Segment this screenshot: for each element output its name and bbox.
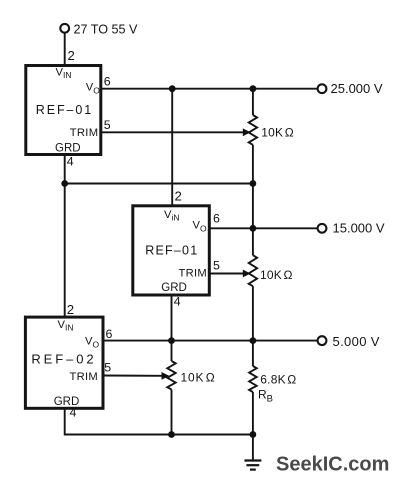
svg-text:GRD: GRD: [161, 282, 187, 294]
svg-text:2: 2: [175, 189, 182, 204]
svg-text:GRD: GRD: [55, 143, 81, 155]
svg-text:25.000 V: 25.000 V: [331, 81, 383, 96]
svg-text:5: 5: [104, 118, 111, 132]
svg-text:GRD: GRD: [54, 396, 80, 408]
svg-text:TRIM: TRIM: [70, 127, 99, 139]
svg-text:10KΩ: 10KΩ: [260, 268, 293, 282]
svg-text:6.8KΩ: 6.8KΩ: [260, 373, 296, 387]
svg-text:4: 4: [67, 155, 74, 169]
svg-text:TRIM: TRIM: [179, 268, 208, 280]
svg-text:5.000 V: 5.000 V: [333, 334, 380, 349]
svg-text:2: 2: [67, 302, 74, 317]
svg-text:6: 6: [106, 327, 113, 341]
svg-text:5: 5: [213, 258, 220, 272]
svg-text:REF–02: REF–02: [31, 351, 96, 366]
svg-text:5: 5: [104, 361, 111, 375]
svg-text:6: 6: [104, 74, 111, 88]
svg-text:15.000 V: 15.000 V: [333, 220, 385, 235]
svg-text:6: 6: [213, 212, 220, 226]
svg-text:10KΩ: 10KΩ: [261, 126, 294, 140]
svg-text:2: 2: [68, 48, 75, 63]
svg-text:SeekIC.com: SeekIC.com: [276, 454, 389, 476]
svg-text:27 TO 55 V: 27 TO 55 V: [74, 23, 139, 37]
svg-text:4: 4: [174, 294, 181, 308]
svg-text:TRIM: TRIM: [70, 371, 99, 383]
svg-text:REF–01: REF–01: [36, 103, 93, 117]
svg-text:REF–01: REF–01: [145, 244, 198, 258]
svg-text:10KΩ: 10KΩ: [181, 371, 216, 385]
